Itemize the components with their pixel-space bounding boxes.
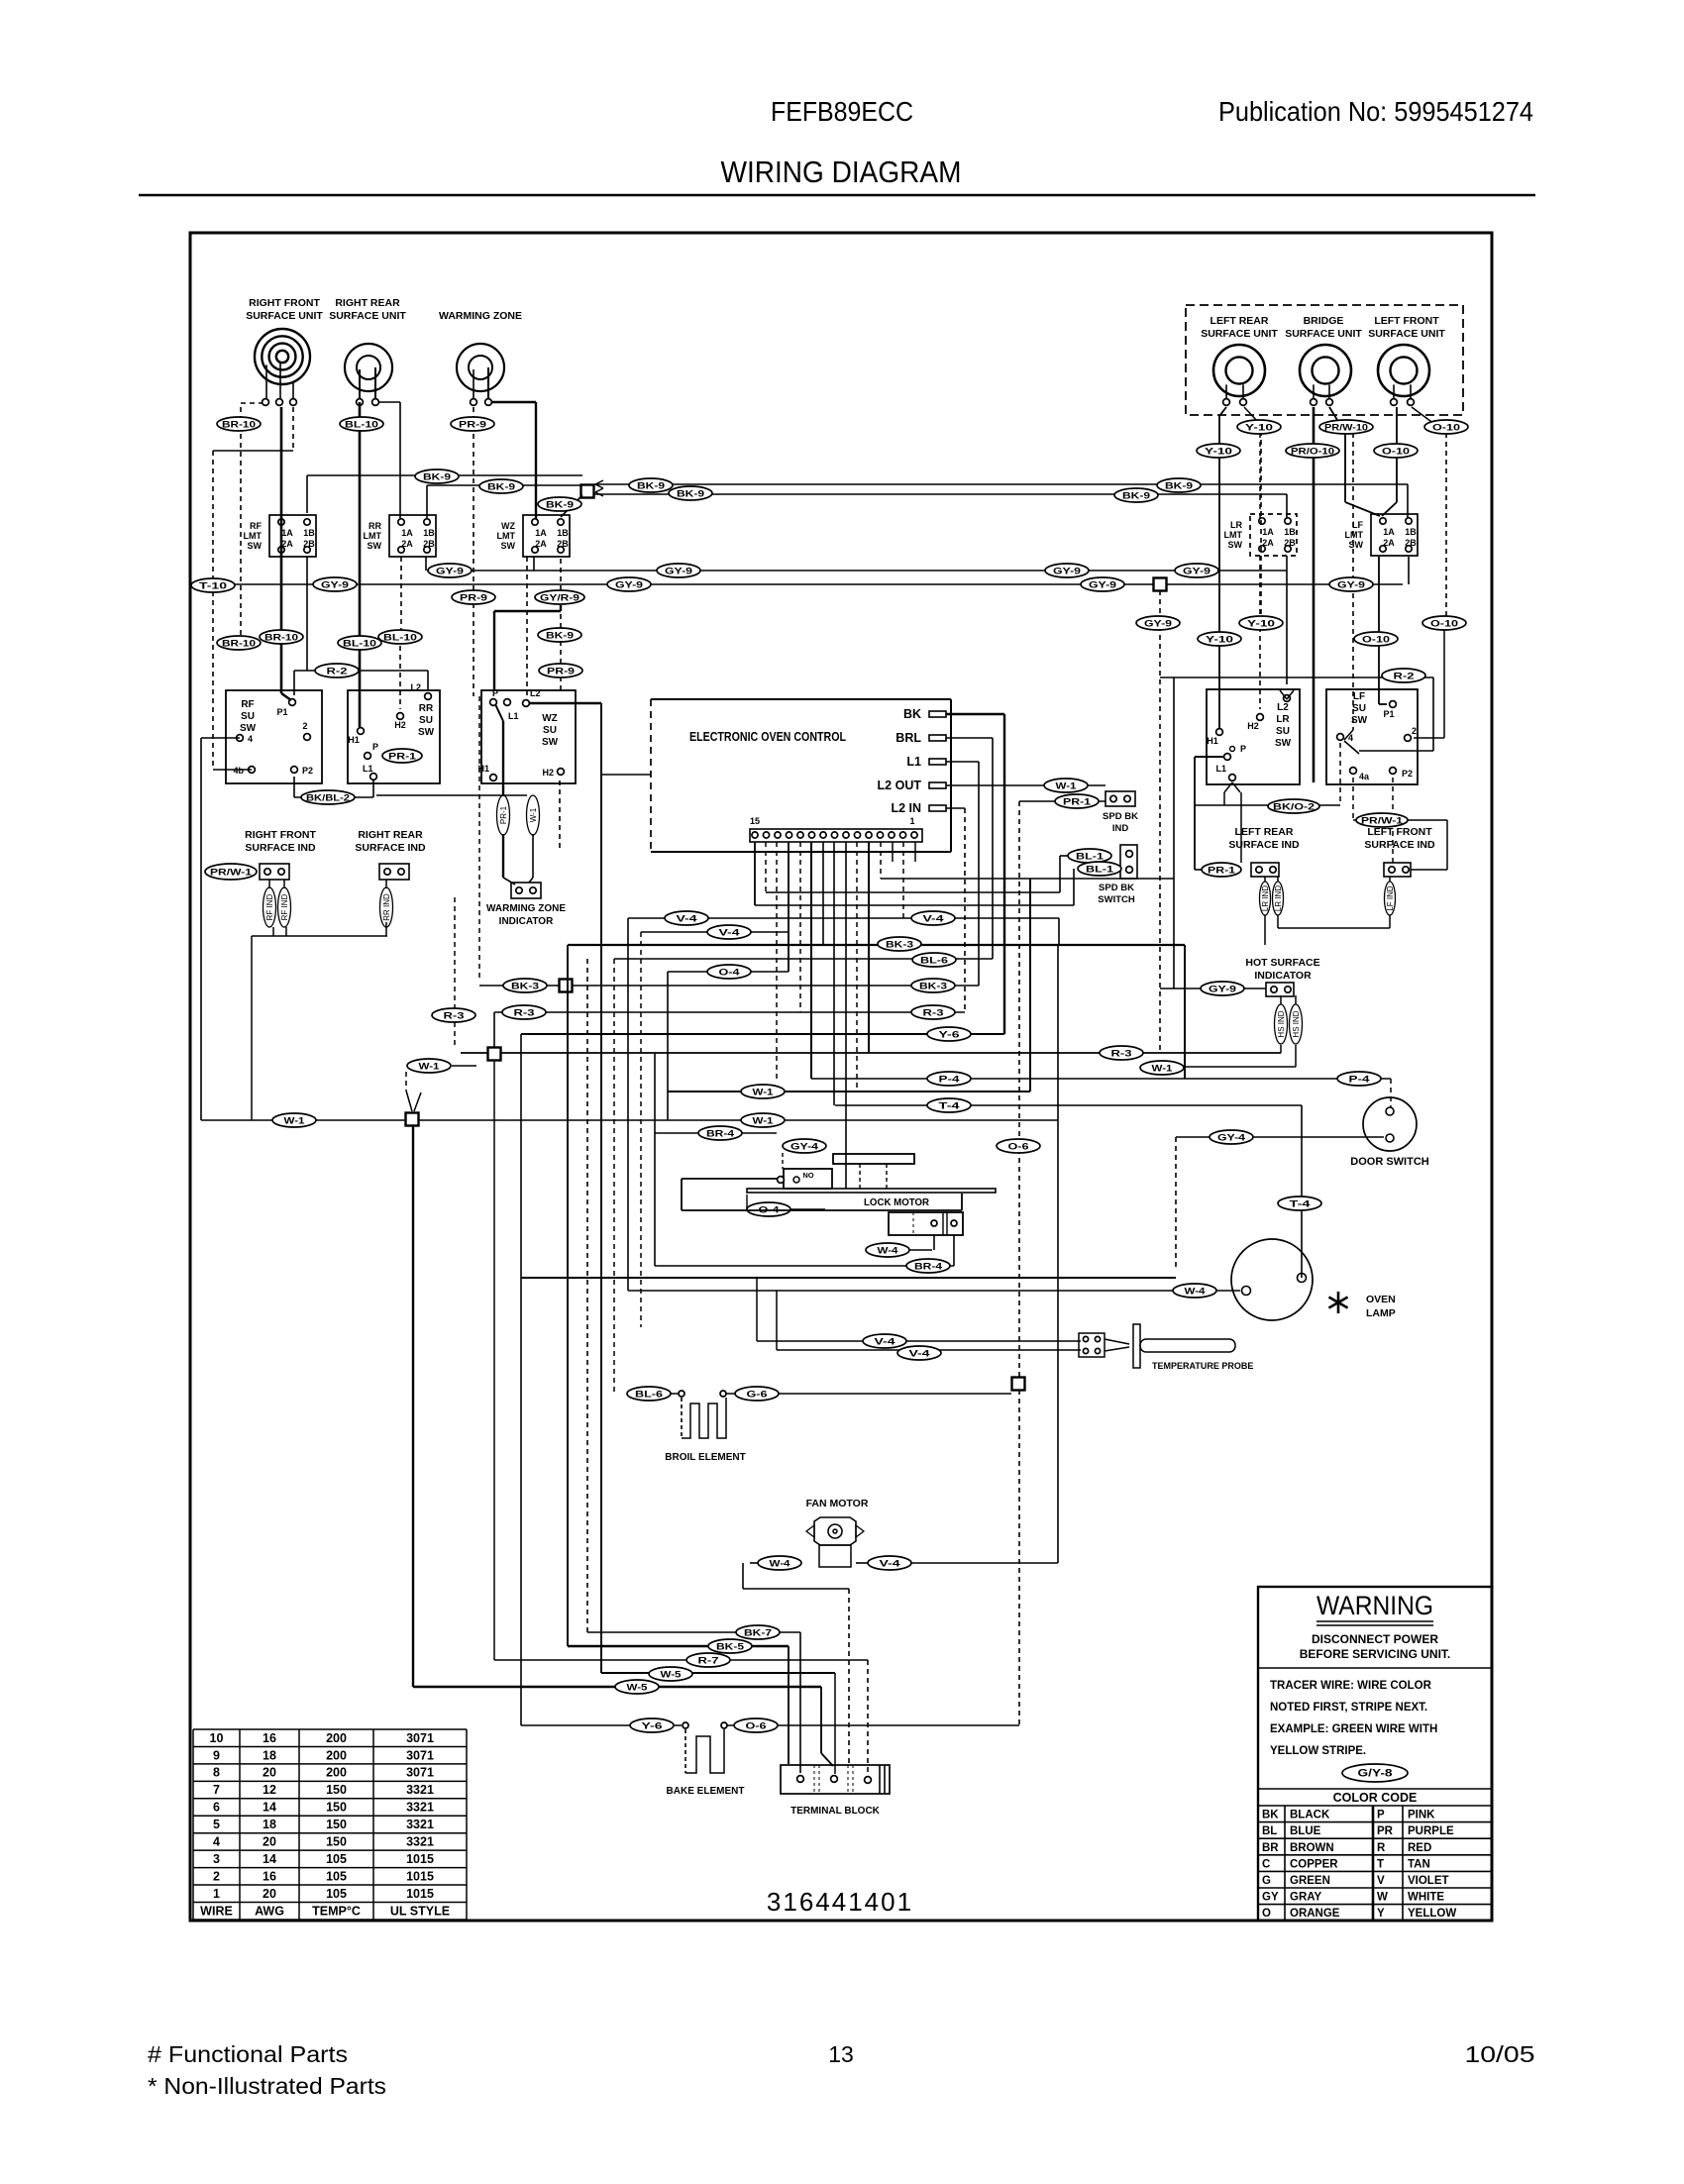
svg-text:V-4: V-4 — [875, 1337, 896, 1348]
svg-text:2: 2 — [302, 721, 307, 731]
svg-text:GY-9: GY-9 — [665, 567, 692, 577]
svg-text:PR/W-1: PR/W-1 — [1361, 816, 1404, 827]
svg-text:105: 105 — [326, 1887, 347, 1901]
svg-text:SURFACE UNIT: SURFACE UNIT — [329, 310, 406, 322]
svg-text:W-1: W-1 — [1056, 781, 1078, 792]
svg-text:20: 20 — [263, 1766, 276, 1780]
svg-text:WIRING DIAGRAM: WIRING DIAGRAM — [721, 155, 962, 189]
svg-text:1A: 1A — [401, 528, 413, 538]
svg-text:SPD BK: SPD BK — [1099, 883, 1134, 893]
svg-text:BL-10: BL-10 — [383, 633, 417, 644]
svg-text:SURFACE UNIT: SURFACE UNIT — [1201, 328, 1278, 340]
svg-text:V-4: V-4 — [880, 1559, 901, 1570]
svg-text:T-4: T-4 — [1290, 1199, 1312, 1210]
svg-text:LMT: LMT — [244, 531, 263, 541]
svg-text:GY-9: GY-9 — [1337, 580, 1365, 591]
svg-text:BR-10: BR-10 — [264, 633, 298, 644]
svg-text:SURFACE IND: SURFACE IND — [355, 842, 426, 854]
svg-text:200: 200 — [326, 1748, 347, 1762]
svg-text:AWG: AWG — [255, 1904, 284, 1918]
svg-text:L2: L2 — [410, 682, 421, 692]
svg-text:GY: GY — [1262, 1892, 1279, 1904]
svg-text:20: 20 — [263, 1887, 276, 1901]
svg-text:BK-9: BK-9 — [423, 472, 451, 483]
svg-text:3071: 3071 — [406, 1748, 434, 1762]
svg-text:O-6: O-6 — [1008, 1142, 1029, 1153]
svg-text:W-1: W-1 — [753, 1116, 775, 1127]
svg-text:BEFORE SERVICING UNIT.: BEFORE SERVICING UNIT. — [1300, 1647, 1450, 1661]
svg-text:L1: L1 — [363, 764, 373, 774]
svg-text:L2: L2 — [1277, 702, 1289, 713]
svg-text:1A: 1A — [1262, 527, 1274, 537]
svg-text:SW: SW — [248, 541, 263, 551]
svg-text:RF: RF — [250, 521, 262, 531]
svg-text:PR-9: PR-9 — [547, 667, 575, 677]
svg-text:16: 16 — [263, 1869, 276, 1883]
svg-text:BROWN: BROWN — [1290, 1842, 1334, 1854]
svg-text:Y-6: Y-6 — [939, 1030, 960, 1041]
svg-text:BL-6: BL-6 — [635, 1390, 663, 1401]
svg-text:14: 14 — [263, 1801, 276, 1815]
svg-text:W-1: W-1 — [529, 807, 538, 822]
svg-text:18: 18 — [263, 1818, 276, 1831]
svg-text:105: 105 — [326, 1869, 347, 1883]
svg-text:10/05: 10/05 — [1465, 2041, 1535, 2067]
svg-text:INDICATOR: INDICATOR — [1254, 970, 1312, 982]
svg-text:2B: 2B — [557, 539, 569, 549]
svg-text:105: 105 — [326, 1852, 347, 1866]
svg-text:4: 4 — [213, 1835, 220, 1849]
svg-text:BR-4: BR-4 — [914, 1262, 943, 1273]
svg-text:LMT: LMT — [1345, 530, 1364, 540]
svg-text:WHITE: WHITE — [1408, 1892, 1444, 1904]
svg-text:BLUE: BLUE — [1290, 1825, 1321, 1837]
svg-text:* Non-Illustrated Parts: * Non-Illustrated Parts — [148, 2073, 386, 2099]
svg-text:BK: BK — [903, 707, 921, 721]
svg-text:SW: SW — [1349, 540, 1364, 550]
svg-text:LEFT FRONT: LEFT FRONT — [1367, 826, 1432, 838]
svg-text:W-4: W-4 — [878, 1246, 899, 1257]
svg-text:V-4: V-4 — [909, 1349, 931, 1360]
svg-text:HOT SURFACE: HOT SURFACE — [1245, 957, 1319, 969]
svg-text:L1: L1 — [508, 711, 519, 721]
svg-text:SU: SU — [241, 711, 255, 722]
svg-text:SPD BK: SPD BK — [1103, 811, 1138, 822]
svg-text:Y-10: Y-10 — [1206, 635, 1233, 646]
svg-text:BK-9: BK-9 — [1165, 481, 1193, 492]
svg-text:200: 200 — [326, 1731, 347, 1745]
svg-text:DOOR SWITCH: DOOR SWITCH — [1350, 1156, 1428, 1168]
svg-text:W-1: W-1 — [284, 1116, 306, 1127]
svg-text:LEFT FRONT: LEFT FRONT — [1374, 315, 1439, 327]
svg-text:1: 1 — [213, 1887, 220, 1901]
svg-text:V-4: V-4 — [719, 928, 741, 939]
svg-text:RIGHT REAR: RIGHT REAR — [358, 829, 423, 841]
svg-text:O-10: O-10 — [1382, 447, 1410, 458]
svg-text:3321: 3321 — [406, 1818, 434, 1831]
svg-text:SW: SW — [501, 541, 516, 551]
svg-text:BK-3: BK-3 — [919, 982, 947, 992]
svg-text:16: 16 — [263, 1731, 276, 1745]
svg-text:13: 13 — [828, 2041, 854, 2067]
svg-text:GY-9: GY-9 — [1209, 985, 1236, 995]
svg-text:GRAY: GRAY — [1290, 1892, 1321, 1904]
svg-text:150: 150 — [326, 1835, 347, 1849]
svg-text:8: 8 — [213, 1766, 220, 1780]
svg-text:2B: 2B — [1284, 538, 1296, 548]
svg-text:1A: 1A — [535, 528, 547, 538]
svg-text:PR-1: PR-1 — [388, 752, 416, 762]
svg-text:GY-9: GY-9 — [1053, 567, 1081, 577]
svg-text:GY/R-9: GY/R-9 — [540, 593, 579, 604]
svg-text:FAN MOTOR: FAN MOTOR — [806, 1498, 869, 1509]
svg-text:3: 3 — [213, 1852, 220, 1866]
svg-text:O-4: O-4 — [719, 968, 741, 979]
svg-text:RIGHT REAR: RIGHT REAR — [335, 297, 400, 309]
svg-text:7: 7 — [213, 1783, 220, 1797]
svg-text:BK-9: BK-9 — [546, 631, 574, 642]
svg-text:P: P — [1377, 1810, 1385, 1821]
svg-text:BK-9: BK-9 — [637, 481, 665, 492]
svg-text:PR-1: PR-1 — [1063, 797, 1092, 808]
svg-text:IND: IND — [1112, 823, 1129, 834]
svg-text:W-5: W-5 — [627, 1683, 649, 1694]
svg-text:LAMP: LAMP — [1366, 1307, 1396, 1319]
svg-text:2B: 2B — [1405, 538, 1417, 548]
svg-text:TEMP°C: TEMP°C — [312, 1904, 361, 1918]
svg-text:9: 9 — [213, 1748, 220, 1762]
svg-text:PINK: PINK — [1408, 1810, 1435, 1821]
svg-text:L2 IN: L2 IN — [891, 801, 921, 815]
svg-text:1B: 1B — [423, 528, 435, 538]
svg-text:SURFACE UNIT: SURFACE UNIT — [1368, 328, 1445, 340]
svg-text:P: P — [372, 742, 378, 752]
svg-text:NOTED FIRST, STRIPE NEXT.: NOTED FIRST, STRIPE NEXT. — [1270, 1702, 1427, 1714]
svg-text:SW: SW — [368, 541, 382, 551]
svg-text:SURFACE IND: SURFACE IND — [1228, 839, 1300, 851]
svg-text:3321: 3321 — [406, 1801, 434, 1815]
svg-text:1A: 1A — [1383, 527, 1395, 537]
svg-text:1B: 1B — [1284, 527, 1296, 537]
svg-text:150: 150 — [326, 1818, 347, 1831]
svg-text:SW: SW — [418, 727, 435, 738]
svg-text:WARMING ZONE: WARMING ZONE — [439, 310, 522, 322]
svg-text:RR: RR — [368, 521, 381, 531]
svg-text:LR: LR — [1230, 520, 1242, 530]
svg-text:VIOLET: VIOLET — [1408, 1875, 1449, 1887]
svg-text:GY-9: GY-9 — [615, 580, 643, 591]
svg-text:DISCONNECT POWER: DISCONNECT POWER — [1312, 1632, 1438, 1646]
svg-text:P2: P2 — [302, 766, 313, 776]
svg-text:W: W — [1377, 1892, 1388, 1904]
svg-text:TEMPERATURE PROBE: TEMPERATURE PROBE — [1152, 1361, 1253, 1371]
svg-text:BL-10: BL-10 — [343, 639, 376, 650]
svg-text:R-3: R-3 — [1111, 1049, 1132, 1060]
svg-text:P-4: P-4 — [1349, 1075, 1371, 1086]
svg-text:GY-9: GY-9 — [436, 567, 464, 577]
svg-text:L2: L2 — [530, 688, 541, 698]
svg-text:COLOR CODE: COLOR CODE — [1333, 1791, 1418, 1805]
svg-text:R-2: R-2 — [1394, 672, 1415, 682]
svg-text:H2: H2 — [394, 720, 406, 730]
svg-text:BK-9: BK-9 — [1122, 491, 1150, 502]
svg-text:PR-9: PR-9 — [459, 420, 486, 431]
svg-text:R: R — [1377, 1842, 1386, 1854]
svg-text:T-10: T-10 — [199, 581, 227, 592]
svg-text:V-4: V-4 — [923, 914, 945, 925]
svg-text:GY-9: GY-9 — [1144, 619, 1172, 630]
svg-text:ELECTRONIC OVEN CONTROL: ELECTRONIC OVEN CONTROL — [689, 730, 846, 744]
svg-text:1015: 1015 — [406, 1887, 434, 1901]
svg-text:BK/BL-2: BK/BL-2 — [306, 793, 350, 804]
svg-text:LR IND: LR IND — [1274, 885, 1283, 911]
svg-text:2A: 2A — [1262, 538, 1274, 548]
svg-text:P1: P1 — [276, 707, 287, 717]
svg-text:SU: SU — [419, 715, 433, 726]
svg-text:Y-6: Y-6 — [642, 1721, 663, 1732]
svg-text:LR IND: LR IND — [1261, 885, 1270, 911]
svg-text:RF IND: RF IND — [265, 893, 274, 920]
svg-text:1015: 1015 — [406, 1852, 434, 1866]
svg-text:2A: 2A — [281, 539, 293, 549]
svg-text:O-10: O-10 — [1362, 635, 1390, 646]
svg-text:PR/O-10: PR/O-10 — [1291, 447, 1334, 458]
svg-text:BK-3: BK-3 — [511, 982, 539, 992]
svg-text:BK: BK — [1262, 1810, 1279, 1821]
svg-text:W-4: W-4 — [770, 1559, 791, 1570]
svg-text:V-4: V-4 — [677, 914, 698, 925]
svg-text:LMT: LMT — [1224, 530, 1243, 540]
svg-text:1: 1 — [909, 816, 914, 826]
svg-text:TRACER WIRE: WIRE COLOR: TRACER WIRE: WIRE COLOR — [1270, 1680, 1432, 1692]
svg-text:SU: SU — [543, 725, 557, 736]
svg-text:HS IND: HS IND — [1292, 1010, 1301, 1037]
svg-text:TAN: TAN — [1408, 1858, 1430, 1870]
svg-text:P2: P2 — [1402, 769, 1413, 779]
svg-text:GY-9: GY-9 — [1089, 580, 1116, 591]
svg-text:WARNING: WARNING — [1316, 1591, 1433, 1620]
svg-text:GY-4: GY-4 — [790, 1142, 819, 1153]
svg-text:LEFT REAR: LEFT REAR — [1210, 315, 1269, 327]
svg-text:NO: NO — [802, 1171, 813, 1180]
svg-text:6: 6 — [213, 1801, 220, 1815]
svg-text:1B: 1B — [557, 528, 569, 538]
svg-text:H2: H2 — [1247, 721, 1259, 731]
svg-text:H1: H1 — [1207, 736, 1218, 746]
svg-text:BL: BL — [1262, 1825, 1277, 1837]
svg-text:BL-1: BL-1 — [1086, 865, 1114, 876]
svg-text:BAKE ELEMENT: BAKE ELEMENT — [667, 1786, 745, 1797]
svg-text:PR-1: PR-1 — [499, 805, 508, 824]
svg-text:P1: P1 — [1383, 709, 1394, 719]
svg-text:INDICATOR: INDICATOR — [499, 916, 554, 927]
svg-text:150: 150 — [326, 1801, 347, 1815]
svg-text:Y-10: Y-10 — [1245, 423, 1273, 434]
svg-text:RED: RED — [1408, 1842, 1431, 1854]
svg-text:YELLOW STRIPE.: YELLOW STRIPE. — [1270, 1745, 1366, 1757]
svg-text:ORANGE: ORANGE — [1290, 1908, 1340, 1920]
svg-text:2A: 2A — [535, 539, 547, 549]
svg-text:HS IND: HS IND — [1277, 1010, 1286, 1037]
svg-text:2: 2 — [1412, 726, 1417, 736]
svg-text:BR-10: BR-10 — [222, 639, 256, 650]
svg-text:C: C — [1262, 1858, 1270, 1870]
svg-text:Y: Y — [1377, 1908, 1385, 1920]
svg-text:O-10: O-10 — [1430, 619, 1458, 630]
svg-text:BK-9: BK-9 — [677, 489, 704, 500]
svg-text:H2: H2 — [542, 768, 554, 778]
svg-text:O: O — [1262, 1908, 1271, 1920]
svg-text:LMT: LMT — [364, 531, 382, 541]
svg-text:SW: SW — [1275, 738, 1292, 749]
svg-text:SU: SU — [1352, 703, 1366, 714]
svg-text:P-4: P-4 — [939, 1075, 961, 1086]
svg-text:W-4: W-4 — [1185, 1287, 1207, 1298]
svg-text:LF IND: LF IND — [1386, 885, 1395, 911]
svg-text:BR-4: BR-4 — [706, 1129, 735, 1140]
svg-text:3071: 3071 — [406, 1731, 434, 1745]
svg-text:RF IND: RF IND — [280, 893, 289, 920]
svg-text:BK/O-2: BK/O-2 — [1273, 802, 1315, 813]
svg-text:WZ: WZ — [501, 521, 515, 531]
svg-text:W-1: W-1 — [419, 1062, 441, 1073]
svg-text:GREEN: GREEN — [1290, 1875, 1330, 1887]
svg-text:O-10: O-10 — [1432, 423, 1460, 434]
svg-text:BLACK: BLACK — [1290, 1810, 1330, 1821]
svg-text:Y-10: Y-10 — [1247, 619, 1275, 630]
svg-text:SWITCH: SWITCH — [1098, 894, 1135, 905]
svg-text:WARMING ZONE: WARMING ZONE — [486, 903, 566, 914]
svg-text:3321: 3321 — [406, 1783, 434, 1797]
svg-text:UL STYLE: UL STYLE — [390, 1904, 450, 1918]
svg-text:TERMINAL BLOCK: TERMINAL BLOCK — [790, 1806, 881, 1817]
svg-text:BR: BR — [1262, 1842, 1279, 1854]
svg-text:SURFACE UNIT: SURFACE UNIT — [1285, 328, 1362, 340]
svg-text:G-6: G-6 — [747, 1390, 768, 1401]
svg-text:R-2: R-2 — [327, 667, 348, 677]
svg-text:4a: 4a — [1359, 772, 1370, 781]
svg-text:R-3: R-3 — [444, 1011, 465, 1022]
svg-text:1015: 1015 — [406, 1869, 434, 1883]
svg-text:H1: H1 — [348, 735, 360, 745]
svg-text:BRL: BRL — [895, 731, 921, 745]
svg-text:BK-3: BK-3 — [886, 940, 913, 951]
svg-text:BK-5: BK-5 — [716, 1642, 745, 1653]
svg-text:SU: SU — [1276, 726, 1290, 737]
svg-text:18: 18 — [263, 1748, 276, 1762]
svg-text:4: 4 — [248, 734, 253, 744]
svg-text:R-7: R-7 — [698, 1656, 719, 1667]
svg-text:2A: 2A — [401, 539, 413, 549]
svg-text:T: T — [1377, 1858, 1384, 1870]
svg-text:LEFT REAR: LEFT REAR — [1235, 826, 1294, 838]
svg-text:RR IND: RR IND — [382, 893, 391, 921]
svg-text:# Functional Parts: # Functional Parts — [148, 2041, 348, 2067]
svg-text:GY-4: GY-4 — [1217, 1133, 1246, 1144]
svg-text:L1: L1 — [906, 755, 921, 769]
svg-text:RIGHT FRONT: RIGHT FRONT — [245, 829, 316, 841]
svg-text:R-3: R-3 — [923, 1008, 944, 1019]
svg-text:L2 OUT: L2 OUT — [878, 779, 922, 792]
svg-text:R-3: R-3 — [514, 1008, 535, 1019]
svg-text:PR/W-10: PR/W-10 — [1324, 423, 1368, 434]
svg-text:L1: L1 — [1215, 764, 1226, 774]
svg-text:BROIL ELEMENT: BROIL ELEMENT — [665, 1452, 745, 1463]
svg-text:W-1: W-1 — [753, 1088, 775, 1098]
svg-text:20: 20 — [263, 1835, 276, 1849]
svg-text:3071: 3071 — [406, 1766, 434, 1780]
svg-text:15: 15 — [750, 816, 760, 826]
svg-text:YELLOW: YELLOW — [1408, 1908, 1456, 1920]
svg-text:2A: 2A — [1383, 538, 1395, 548]
svg-text:RR: RR — [419, 703, 434, 714]
svg-text:GY-9: GY-9 — [321, 580, 349, 591]
svg-text:W-5: W-5 — [661, 1670, 683, 1681]
svg-text:BR-10: BR-10 — [222, 420, 256, 431]
svg-text:SW: SW — [542, 737, 559, 748]
svg-text:W-1: W-1 — [1152, 1064, 1174, 1075]
svg-text:PR-9: PR-9 — [460, 593, 487, 604]
svg-text:1A: 1A — [281, 528, 293, 538]
svg-text:LF: LF — [1353, 691, 1365, 702]
svg-text:RIGHT FRONT: RIGHT FRONT — [249, 297, 320, 309]
svg-text:2B: 2B — [423, 539, 435, 549]
svg-text:SURFACE IND: SURFACE IND — [1364, 839, 1435, 851]
svg-text:Publication No: 5995451274: Publication No: 5995451274 — [1218, 96, 1533, 127]
svg-text:200: 200 — [326, 1766, 347, 1780]
svg-text:BL-1: BL-1 — [1076, 852, 1105, 863]
svg-text:FEFB89ECC: FEFB89ECC — [771, 96, 913, 127]
svg-text:2: 2 — [213, 1869, 220, 1883]
svg-text:PR-1: PR-1 — [1208, 866, 1235, 876]
svg-text:2B: 2B — [303, 539, 315, 549]
svg-text:OVEN: OVEN — [1366, 1294, 1396, 1305]
svg-text:4b: 4b — [233, 766, 244, 776]
svg-text:LOCK MOTOR: LOCK MOTOR — [864, 1196, 929, 1208]
svg-text:1B: 1B — [1405, 527, 1417, 537]
svg-text:5: 5 — [213, 1818, 220, 1831]
svg-text:3321: 3321 — [406, 1835, 434, 1849]
svg-text:GY-9: GY-9 — [1183, 567, 1210, 577]
svg-text:1B: 1B — [303, 528, 315, 538]
svg-text:SURFACE IND: SURFACE IND — [245, 842, 316, 854]
svg-text:O-6: O-6 — [746, 1721, 767, 1732]
svg-text:G: G — [1262, 1875, 1271, 1887]
svg-text:WZ: WZ — [542, 713, 558, 724]
svg-text:SURFACE UNIT: SURFACE UNIT — [246, 310, 323, 322]
svg-text:BK-9: BK-9 — [546, 500, 574, 511]
svg-text:PURPLE: PURPLE — [1408, 1825, 1454, 1837]
svg-text:12: 12 — [263, 1783, 276, 1797]
svg-text:SW: SW — [240, 723, 257, 734]
svg-text:COPPER: COPPER — [1290, 1858, 1338, 1870]
svg-text:SW: SW — [1228, 540, 1243, 550]
svg-text:RF: RF — [241, 699, 254, 710]
svg-text:G/Y-8: G/Y-8 — [1358, 1768, 1393, 1780]
svg-text:LR: LR — [1276, 714, 1290, 725]
svg-text:PR: PR — [1377, 1825, 1394, 1837]
svg-text:BL-10: BL-10 — [345, 420, 378, 431]
svg-text:V: V — [1377, 1875, 1385, 1887]
svg-text:PR/W-1: PR/W-1 — [210, 868, 252, 878]
svg-text:Y-10: Y-10 — [1205, 447, 1232, 458]
svg-text:EXAMPLE: GREEN WIRE WIT: EXAMPLE: GREEN WIRE WITH — [1270, 1723, 1437, 1735]
svg-text:BRIDGE: BRIDGE — [1304, 315, 1344, 327]
svg-text:316441401: 316441401 — [767, 1887, 913, 1917]
svg-text:14: 14 — [263, 1852, 276, 1866]
svg-text:WIRE: WIRE — [200, 1904, 233, 1918]
svg-text:BL-6: BL-6 — [920, 956, 948, 967]
